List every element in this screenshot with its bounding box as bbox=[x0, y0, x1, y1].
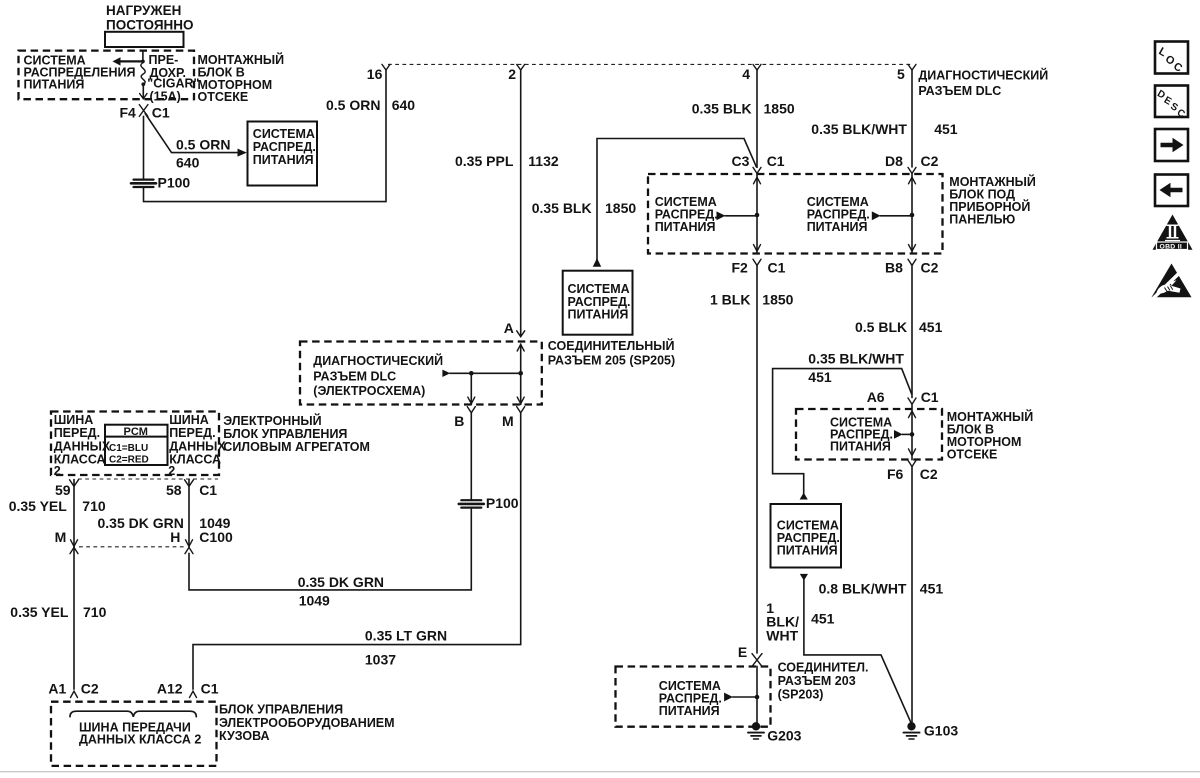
battery feed box bbox=[105, 32, 184, 47]
svg-text:451: 451 bbox=[920, 581, 944, 597]
connector C3 / C1 bbox=[732, 153, 785, 184]
svg-text:СОЕДИНИТЕЛ.: СОЕДИНИТЕЛ. bbox=[778, 661, 869, 675]
svg-text:1037: 1037 bbox=[365, 652, 396, 668]
dashed box SP203 splice pack bbox=[616, 667, 771, 727]
svg-text:1850: 1850 bbox=[762, 292, 793, 308]
wire 0.35 LT GRN 1037 (M to A12) bbox=[193, 413, 521, 689]
wire 0.35 YEL 710 (M to A1) bbox=[73, 547, 75, 689]
wire 0.35 YEL 710 (pin 59 down) bbox=[73, 480, 75, 547]
wire 0.35 BLK 1850 branch to power distribution box bbox=[532, 139, 757, 267]
svg-text:2: 2 bbox=[508, 66, 516, 82]
svg-text:СОЕДИНИТЕЛЬНЫЙ: СОЕДИНИТЕЛЬНЫЙ bbox=[548, 338, 675, 353]
svg-text:КЛАССА: КЛАССА bbox=[54, 453, 106, 467]
splice P100 bbox=[131, 175, 190, 191]
svg-text:ПИТАНИЯ: ПИТАНИЯ bbox=[24, 77, 85, 91]
box СИСТЕМА РАСПРЕД. ПИТАНИЯ (mid, SP205 feed) bbox=[563, 271, 633, 335]
svg-text:F6: F6 bbox=[887, 466, 904, 482]
connector A6 / C1 bbox=[867, 389, 939, 405]
wire 0.35 DK GRN 1049 (B to H/C100) bbox=[189, 509, 471, 590]
svg-text:C1: C1 bbox=[921, 389, 939, 405]
connector B bbox=[454, 407, 475, 429]
wire 0.35 BLK/WHT 451 branch (A6 to power dist) bbox=[773, 369, 912, 494]
dashed box МОНТАЖНЫЙ БЛОК В МОТОРНОМ ОТСЕКЕ (lower) bbox=[796, 409, 942, 460]
dashed ref СИСТЕМА РАСПРЕД. ПИТАНИЯ (inside SP203) bbox=[659, 679, 757, 718]
svg-text:0.35 BLK: 0.35 BLK bbox=[532, 200, 592, 216]
svg-text:C3: C3 bbox=[732, 153, 750, 169]
box СИСТЕМА РАСПРЕД. ПИТАНИЯ (lower solid) bbox=[771, 504, 842, 568]
svg-text:4: 4 bbox=[742, 66, 750, 82]
icon arrow right bbox=[1155, 129, 1188, 161]
svg-text:ПИТАНИЯ: ПИТАНИЯ bbox=[253, 153, 314, 167]
svg-text:A1: A1 bbox=[48, 681, 66, 697]
wire B down to P100 bbox=[470, 413, 472, 499]
dashed box МОНТАЖНЫЙ БЛОК ПОД ПРИБОРНОЙ ПАНЕЛЬЮ bbox=[648, 174, 943, 254]
svg-text:451: 451 bbox=[919, 319, 943, 335]
wire 1 BLK 1850 (F2 to SP203) bbox=[756, 265, 758, 652]
svg-text:C100: C100 bbox=[199, 529, 233, 545]
dashed ref СИСТЕМА РАСПРЕД. ПИТАНИЯ (right, inside fuse block) bbox=[807, 195, 912, 234]
svg-text:0.35 YEL: 0.35 YEL bbox=[9, 498, 68, 514]
svg-text:0.35 LT GRN: 0.35 LT GRN bbox=[365, 627, 447, 643]
svg-text:710: 710 bbox=[82, 498, 106, 514]
svg-text:451: 451 bbox=[808, 369, 832, 385]
connector M bbox=[502, 407, 525, 429]
svg-text:C2=RED: C2=RED bbox=[109, 454, 149, 465]
svg-text:0.35 BLK/WHT: 0.35 BLK/WHT bbox=[811, 121, 907, 137]
svg-text:0.35 DK GRN: 0.35 DK GRN bbox=[298, 574, 384, 590]
svg-text:451: 451 bbox=[811, 610, 835, 626]
wire 0.35 BLK/WHT 451 (pin 5 down) bbox=[911, 70, 913, 167]
icon OBD II triangle bbox=[1153, 215, 1193, 251]
svg-text:OBD II: OBD II bbox=[1160, 243, 1183, 250]
connector C100 row bbox=[55, 529, 233, 554]
svg-text:C2: C2 bbox=[921, 259, 939, 275]
svg-text:НАГРУЖЕН: НАГРУЖЕН bbox=[106, 3, 181, 18]
dashed box СИСТЕМА РАСПРЕДЕЛЕНИЯ ПИТАНИЯ (engine bay fuse block) bbox=[19, 51, 195, 100]
svg-text:РАЗЪЕМ 203: РАЗЪЕМ 203 bbox=[778, 674, 856, 688]
node ШИНА ПЕРЕД. ДАННЫХ КЛАССА 2 (left) bbox=[54, 413, 111, 478]
svg-text:ПИТАНИЯ: ПИТАНИЯ bbox=[777, 544, 838, 558]
svg-text:P100: P100 bbox=[158, 175, 191, 191]
connector F2 / C1 bbox=[732, 259, 786, 275]
svg-text:ОТСЕКЕ: ОТСЕКЕ bbox=[947, 447, 998, 461]
svg-text:БЛОК УПРАВЛЕНИЯ: БЛОК УПРАВЛЕНИЯ bbox=[219, 702, 343, 716]
fuse ПРЕДОХР. "CIGAR" 15A bbox=[140, 51, 147, 99]
svg-text:C1: C1 bbox=[199, 482, 217, 498]
dashed box ШИНА ПЕРЕДАЧИ ДАННЫХ КЛАССА 2 bbox=[51, 702, 217, 766]
svg-text:ПИТАНИЯ: ПИТАНИЯ bbox=[655, 220, 716, 234]
connector E bbox=[738, 644, 762, 667]
pin 5 chevron bbox=[908, 64, 916, 70]
svg-text:F4: F4 bbox=[120, 105, 137, 121]
wire through engine bay block (A6 to F6) bbox=[911, 404, 913, 459]
dashed ref СИСТЕМА РАСПРЕД. ПИТАНИЯ (left, inside fuse block) bbox=[655, 195, 757, 234]
svg-text:ШИНА: ШИНА bbox=[54, 413, 94, 427]
svg-text:C1: C1 bbox=[201, 681, 219, 697]
wire 0.35 PPL 1132 (pin 2 to SP205 pin A) bbox=[520, 70, 522, 336]
icon LOC bbox=[1155, 42, 1188, 75]
svg-text:ПЕРЕД.: ПЕРЕД. bbox=[169, 426, 215, 440]
brace bbox=[70, 711, 196, 717]
svg-text:ДАННЫХ: ДАННЫХ bbox=[54, 439, 111, 453]
PCM connector row (thin dashed) bbox=[78, 478, 218, 480]
svg-text:ЭЛЕКТРОННЫЙ: ЭЛЕКТРОННЫЙ bbox=[223, 413, 321, 428]
svg-text:PCM: PCM bbox=[124, 426, 148, 438]
svg-text:СИСТЕМА: СИСТЕМА bbox=[253, 127, 315, 141]
branch wire 0.5 ORN 640 to power distribution box bbox=[145, 114, 247, 171]
node МОНТАЖНЫЙ БЛОК В МОТОРНОМ ОТСЕКЕ label bbox=[198, 52, 285, 104]
svg-text:РАСПРЕД.: РАСПРЕД. bbox=[253, 140, 316, 154]
svg-text:59: 59 bbox=[55, 482, 71, 498]
svg-text:710: 710 bbox=[83, 604, 107, 620]
node ЭЛЕКТРОННЫЙ БЛОК УПРАВЛЕНИЯ СИЛОВЫМ АГРЕГАТОМ label bbox=[223, 413, 370, 454]
pin 2 chevron bbox=[517, 64, 525, 70]
icon DESC bbox=[1155, 86, 1188, 121]
svg-text:0.35 PPL: 0.35 PPL bbox=[455, 153, 514, 169]
DLC connector body (dashed line) bbox=[388, 63, 912, 65]
svg-text:0.35 YEL: 0.35 YEL bbox=[10, 604, 69, 620]
node СОЕДИНИТЕЛ. РАЗЪЕМ 203 (SP203) label bbox=[778, 661, 869, 702]
svg-text:КЛАССА: КЛАССА bbox=[169, 453, 221, 467]
svg-text:"CIGAR": "CIGAR" bbox=[147, 76, 199, 90]
svg-text:РАЗЪЕМ 205 (SP205): РАЗЪЕМ 205 (SP205) bbox=[548, 354, 675, 368]
page edge line bbox=[0, 771, 1200, 773]
dashed box ДИАГНОСТИЧЕСКИЙ РАЗЪЕМ DLC (ЭЛЕКТРОСХЕМА) SP205 bbox=[300, 342, 542, 405]
svg-text:1850: 1850 bbox=[764, 100, 795, 116]
svg-text:ПОСТОЯННО: ПОСТОЯННО bbox=[106, 17, 194, 32]
svg-text:WHT: WHT bbox=[766, 628, 798, 644]
wire from P100 to DLC pin 16 bbox=[144, 70, 387, 202]
wire label 1 BLK/WHT 451 bbox=[766, 600, 834, 644]
svg-text:A6: A6 bbox=[867, 389, 885, 405]
svg-text:A: A bbox=[504, 320, 514, 336]
svg-text:B8: B8 bbox=[885, 259, 903, 275]
wire 0.35 DK GRN 1049 (pin 58 down) bbox=[188, 480, 190, 547]
svg-text:C2: C2 bbox=[921, 153, 939, 169]
svg-text:ШИНА: ШИНА bbox=[169, 413, 209, 427]
pin 4 chevron bbox=[753, 64, 761, 70]
connector D8 / C2 bbox=[885, 153, 939, 184]
node БЛОК УПРАВЛЕНИЯ ЭЛЕКТРООБОРУДОВАНИЕМ КУЗОВА label bbox=[219, 702, 395, 742]
svg-text:A12: A12 bbox=[157, 681, 183, 697]
svg-text:P100: P100 bbox=[486, 495, 519, 511]
node ШИНА ПЕРЕД. ДАННЫХ КЛАССА 2 (right) bbox=[168, 413, 226, 478]
svg-text:0.5 BLK: 0.5 BLK bbox=[855, 319, 907, 335]
PCM connector legend box bbox=[105, 425, 168, 466]
node СОЕДИНИТЕЛЬНЫЙ РАЗЪЕМ 205 (SP205) label bbox=[548, 338, 675, 368]
svg-text:C2: C2 bbox=[81, 681, 99, 697]
svg-text:(SP203): (SP203) bbox=[778, 688, 824, 702]
svg-text:ПАНЕЛЬЮ: ПАНЕЛЬЮ bbox=[949, 213, 1015, 227]
svg-text:0.5 ORN: 0.5 ORN bbox=[326, 97, 380, 113]
connector B8 / C2 bbox=[885, 259, 939, 275]
wire inside SP203 to ground bbox=[756, 667, 758, 723]
svg-text:1049: 1049 bbox=[299, 592, 330, 608]
node ДИАГНОСТИЧЕСКИЙ РАЗЪЕМ DLC label bbox=[918, 67, 1048, 98]
svg-text:58: 58 bbox=[166, 482, 182, 498]
ground G203 bbox=[748, 722, 802, 744]
svg-text:ПИТАНИЯ: ПИТАНИЯ bbox=[830, 440, 891, 454]
svg-text:2: 2 bbox=[168, 464, 175, 478]
svg-text:ДАННЫХ КЛАССА 2: ДАННЫХ КЛАССА 2 bbox=[79, 733, 201, 747]
svg-text:ПРЕ-: ПРЕ- bbox=[149, 53, 179, 67]
svg-text:ПИТАНИЯ: ПИТАНИЯ bbox=[568, 307, 629, 321]
svg-text:G103: G103 bbox=[924, 722, 958, 738]
svg-text:ОТСЕКЕ: ОТСЕКЕ bbox=[198, 90, 249, 104]
wire through fuse block (pin C3 to F2) bbox=[756, 174, 758, 253]
wire 0.8 BLK/WHT 451 (F6 to G103) bbox=[911, 467, 913, 724]
svg-text:G203: G203 bbox=[767, 728, 801, 744]
svg-text:M: M bbox=[502, 413, 514, 429]
internal bus wire with junctions bbox=[442, 370, 523, 377]
wire from box down to G103 bbox=[800, 574, 912, 724]
svg-text:C1: C1 bbox=[767, 153, 785, 169]
dashed box PCM (ЭБУ силовым агрегатом) bbox=[51, 412, 219, 476]
svg-text:ПИТАНИЯ: ПИТАНИЯ bbox=[807, 220, 868, 234]
svg-text:640: 640 bbox=[176, 155, 200, 171]
svg-text:1 BLK: 1 BLK bbox=[710, 292, 750, 308]
svg-text:0.35 BLK: 0.35 BLK bbox=[692, 100, 752, 116]
connector F4 / C1 bbox=[120, 105, 170, 121]
svg-text:(ЭЛЕКТРОСХЕМА): (ЭЛЕКТРОСХЕМА) bbox=[313, 384, 425, 398]
svg-text:F2: F2 bbox=[732, 259, 749, 275]
svg-text:ДИАГНОСТИЧЕСКИЙ: ДИАГНОСТИЧЕСКИЙ bbox=[918, 67, 1048, 82]
svg-text:M: M bbox=[55, 529, 67, 545]
svg-text:B: B bbox=[454, 413, 464, 429]
svg-text:1132: 1132 bbox=[528, 153, 559, 169]
svg-text:H: H bbox=[170, 529, 180, 545]
wire 0.35 BLK 1850 (pin 4 down) bbox=[756, 70, 758, 167]
wire through fuse block (D8 to B8) bbox=[911, 174, 913, 253]
wire 0.5 BLK 451 (B8 to A6) bbox=[911, 265, 913, 397]
svg-text:0.8 BLK/WHT: 0.8 BLK/WHT bbox=[819, 581, 907, 597]
svg-text:БЛОК УПРАВЛЕНИЯ: БЛОК УПРАВЛЕНИЯ bbox=[223, 427, 347, 441]
svg-text:1850: 1850 bbox=[605, 200, 636, 216]
svg-text:16: 16 bbox=[367, 66, 383, 82]
svg-text:E: E bbox=[738, 644, 747, 660]
pin 59 chevron bbox=[70, 480, 79, 487]
connector F6 / C2 bbox=[887, 460, 938, 482]
svg-text:РАЗЪЕМ DLC: РАЗЪЕМ DLC bbox=[313, 369, 396, 383]
wire 0.5 ORN 640 down from F4 bbox=[143, 117, 145, 179]
pin 58 chevron bbox=[185, 480, 194, 487]
svg-text:451: 451 bbox=[934, 121, 958, 137]
svg-text:КУЗОВА: КУЗОВА bbox=[219, 729, 270, 743]
icon ESD warning triangle bbox=[1152, 264, 1192, 300]
connector A chevron bbox=[504, 320, 525, 351]
svg-text:C1: C1 bbox=[768, 259, 786, 275]
pin labels 59 / 58 / C1 bbox=[55, 482, 217, 498]
svg-text:C1: C1 bbox=[152, 105, 170, 121]
connector A1 / C2 bbox=[48, 681, 99, 698]
svg-text:2: 2 bbox=[54, 464, 61, 478]
ground G103 bbox=[904, 722, 959, 739]
connector A12 / C1 bbox=[157, 681, 219, 698]
svg-text:640: 640 bbox=[392, 97, 416, 113]
box СИСТЕМА РАСПРЕД. ПИТАНИЯ (top) bbox=[248, 122, 318, 186]
svg-text:ПИТАНИЯ: ПИТАНИЯ bbox=[659, 704, 720, 718]
splice P100 (second) bbox=[459, 495, 519, 511]
svg-text:C2: C2 bbox=[920, 466, 938, 482]
icon arrow left bbox=[1155, 175, 1188, 207]
wire arrow to power distribution (left) bbox=[113, 57, 143, 65]
svg-text:5: 5 bbox=[897, 66, 905, 82]
svg-text:0.35 BLK/WHT: 0.35 BLK/WHT bbox=[808, 351, 904, 367]
svg-text:РАЗЪЕМ DLC: РАЗЪЕМ DLC bbox=[918, 84, 1001, 98]
svg-text:ДАННЫХ: ДАННЫХ bbox=[169, 439, 226, 453]
pin 16 connector chevron bbox=[382, 64, 390, 70]
node НАГРУЖЕН ПОСТОЯННО label bbox=[106, 3, 194, 32]
wire B drop inside SP205 bbox=[470, 373, 472, 404]
wire A-M through SP205 bbox=[520, 344, 522, 404]
dashed ref СИСТЕМА РАСПРЕД. ПИТАНИЯ (inside engine bay block) bbox=[830, 416, 912, 454]
svg-text:ДИАГНОСТИЧЕСКИЙ: ДИАГНОСТИЧЕСКИЙ bbox=[313, 353, 443, 368]
svg-text:(15А): (15А) bbox=[150, 90, 181, 104]
fuse text labels bbox=[147, 53, 199, 104]
svg-text:C1=BLU: C1=BLU bbox=[109, 443, 148, 454]
svg-text:СИЛОВЫМ АГРЕГАТОМ: СИЛОВЫМ АГРЕГАТОМ bbox=[223, 440, 370, 454]
svg-text:D8: D8 bbox=[885, 153, 903, 169]
svg-text:0.5 ORN: 0.5 ORN bbox=[176, 137, 230, 153]
svg-text:ПЕРЕД.: ПЕРЕД. bbox=[54, 426, 100, 440]
